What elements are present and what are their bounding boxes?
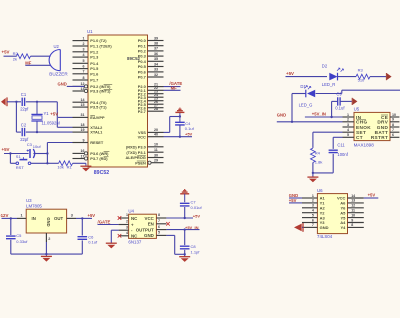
svg-text:1: 1 — [347, 113, 349, 117]
svg-text:GND: GND — [58, 82, 67, 87]
U1 center type text — [127, 56, 140, 61]
wire — [26, 131, 73, 133]
net label +5V_IN U5 — [312, 111, 326, 116]
LED D2 LED_R — [322, 63, 344, 87]
svg-text:RST: RST — [16, 165, 25, 170]
svg-text:LM7805: LM7805 — [26, 203, 42, 208]
svg-text:2: 2 — [48, 237, 50, 241]
no-ERC mark pin1 — [118, 216, 122, 220]
svg-text:0.1uf: 0.1uf — [88, 240, 98, 245]
U1 pin 10 (RXD) P3.0 — [126, 143, 164, 150]
wire — [45, 242, 47, 255]
ground U6 pin7 — [294, 223, 303, 232]
ground below R1 — [80, 163, 91, 171]
power label +12V — [0, 213, 8, 218]
U4 pin 1 NC — [119, 213, 139, 221]
svg-text:GND: GND — [46, 217, 51, 226]
wire — [179, 125, 181, 138]
wire — [81, 218, 83, 235]
connector arrow right row1 — [386, 73, 391, 80]
svg-text:P3.3 (INT1): P3.3 (INT1) — [90, 89, 111, 94]
svg-text:P0.5: P0.5 — [138, 64, 147, 69]
U1 pin 5 P1.4 — [73, 59, 100, 66]
wire — [4, 55, 17, 57]
svg-text:P1.3: P1.3 — [90, 55, 99, 60]
U1 pin 11 (TXD) P3.1 — [126, 148, 163, 155]
U3 designator — [26, 198, 32, 203]
wire VCC — [164, 136, 193, 138]
svg-text:4: 4 — [126, 231, 128, 235]
svg-text:2: 2 — [126, 220, 128, 224]
svg-text:EN: EN — [148, 222, 154, 227]
wire — [76, 217, 92, 219]
svg-text:D1: D1 — [300, 84, 306, 89]
net label GND P3.2 — [58, 82, 67, 87]
svg-text:6: 6 — [158, 225, 160, 229]
wire — [31, 55, 51, 57]
net label MF buzzer — [25, 60, 31, 65]
wire — [302, 226, 303, 228]
U6 pin 2 Y1 — [302, 199, 325, 206]
U1 pin 40 VCC — [138, 133, 164, 140]
svg-text:7: 7 — [158, 219, 160, 223]
U5 designator — [354, 107, 360, 112]
svg-text:35: 35 — [154, 57, 158, 61]
svg-text:+5V: +5V — [50, 111, 58, 116]
U1 pin 4 P1.3 — [73, 53, 100, 60]
U1 pin 16 P3.6 (WR) — [73, 149, 110, 156]
svg-text:8: 8 — [83, 76, 85, 80]
power +5V symbol U1 — [175, 108, 184, 122]
svg-text:(TXD) P3.1: (TXD) P3.1 — [126, 150, 146, 155]
svg-text:2: 2 — [312, 199, 314, 203]
U1 pin 8 P1.7 — [73, 76, 99, 83]
svg-text:10: 10 — [351, 213, 355, 217]
U6 pin 1 A1 — [302, 194, 325, 201]
svg-text:U2: U2 — [54, 44, 60, 49]
svg-text:MF: MF — [171, 85, 178, 90]
U1 pin 31 EA/VPP — [73, 113, 105, 120]
svg-text:1.8k: 1.8k — [315, 160, 323, 165]
wire — [47, 162, 58, 164]
wire — [342, 90, 400, 93]
svg-text:9: 9 — [351, 218, 353, 222]
wire — [9, 154, 11, 164]
svg-text:39: 39 — [154, 36, 158, 40]
svg-text:OUT: OUT — [54, 216, 63, 221]
wire — [313, 132, 343, 148]
svg-text:+5V: +5V — [88, 213, 96, 218]
svg-text:1: 1 — [312, 194, 314, 198]
U1 pin 28 P2.7 — [138, 107, 164, 114]
svg-text:U3: U3 — [26, 198, 32, 203]
wire — [46, 143, 48, 165]
svg-text:5: 5 — [312, 213, 314, 217]
capacitor C1 — [20, 92, 29, 111]
svg-text:100nf: 100nf — [337, 152, 348, 157]
svg-text:16: 16 — [81, 149, 85, 153]
connector arrow right C9 — [352, 98, 357, 105]
no-ERC mark pin7 — [166, 222, 170, 226]
buzzer U2 — [49, 44, 68, 77]
ground U4 pin3 — [106, 243, 117, 248]
wire bottom rail 7805 — [11, 253, 83, 255]
svg-text:C3: C3 — [27, 142, 33, 147]
svg-text:2k: 2k — [13, 56, 17, 61]
power label +5V buzzer — [2, 50, 10, 55]
svg-text:74LS04: 74LS04 — [317, 234, 333, 239]
power label +5V 7805 — [88, 213, 96, 218]
net label /GATE U4 — [98, 219, 111, 224]
wire — [111, 230, 118, 243]
U6 pin 11 A5 — [340, 209, 364, 216]
ground below C8 — [179, 257, 190, 262]
wire — [340, 100, 352, 102]
svg-text:R4: R4 — [315, 150, 321, 155]
resistor R3 — [356, 67, 370, 82]
wire — [33, 153, 47, 155]
net label /GATE P2.0 — [169, 81, 182, 86]
svg-text:18: 18 — [81, 123, 85, 127]
svg-text:IN: IN — [32, 216, 36, 221]
U6 pin 7 GND — [302, 223, 329, 230]
svg-text:GND: GND — [277, 112, 286, 117]
U3 pin 2 — [46, 233, 50, 242]
wire — [10, 218, 12, 235]
svg-text:10k: 10k — [57, 164, 63, 169]
U3 pin 3 — [67, 213, 76, 218]
svg-text:BUZZER: BUZZER — [49, 71, 68, 76]
U1 pin 36 P0.3 — [138, 52, 164, 59]
net label MF P2.1 — [171, 85, 178, 90]
svg-text:P1.0 (T2): P1.0 (T2) — [90, 38, 107, 43]
resistor R4 — [311, 148, 323, 165]
svg-text:R3: R3 — [358, 67, 364, 72]
U5 part MAX1898 — [354, 142, 375, 147]
svg-text:P0.7: P0.7 — [138, 75, 146, 80]
wire — [277, 121, 343, 123]
svg-text:38: 38 — [154, 42, 158, 46]
capacitor C11 100nf — [329, 143, 349, 157]
svg-text:10: 10 — [154, 143, 158, 147]
svg-text:14: 14 — [351, 194, 355, 198]
svg-text:5: 5 — [83, 59, 85, 63]
capacitor C9 0.1uf — [335, 91, 345, 110]
wire — [25, 64, 50, 66]
U6 pin 13 A6 — [340, 199, 364, 206]
U1 pin 15 P3.5 (T1) — [73, 103, 108, 110]
svg-text:R1: R1 — [67, 165, 73, 170]
U1 pin 30 ALE/PROG — [125, 153, 163, 160]
svg-text:33: 33 — [154, 68, 158, 72]
svg-text:7: 7 — [83, 70, 85, 74]
net label GND U5 — [277, 112, 286, 117]
U5 pin 6 RSTRT — [371, 133, 400, 140]
U1 pin 19 XTAL1 — [73, 128, 104, 135]
U1 pin 35 P0.4 — [138, 57, 164, 64]
U1 pin 26 P2.5 — [138, 100, 164, 107]
U3 GND label rotated — [46, 217, 51, 226]
svg-text:PSEN: PSEN — [135, 160, 146, 165]
svg-text:4: 4 — [347, 128, 349, 132]
U1 pin 25 P2.4 — [138, 97, 164, 104]
svg-text:1.1pf: 1.1pf — [191, 249, 201, 254]
wire — [67, 85, 85, 87]
svg-text:15: 15 — [81, 103, 85, 107]
U1 pin 33 P0.6 — [138, 68, 164, 75]
wire — [305, 116, 343, 118]
svg-text:3: 3 — [347, 123, 349, 127]
wire — [57, 102, 72, 128]
wire — [166, 217, 193, 219]
U4 pin 8 VCC — [145, 213, 167, 221]
svg-text:12: 12 — [81, 82, 85, 86]
svg-text:Y1: Y1 — [44, 111, 50, 116]
wire — [184, 250, 186, 257]
U4 pin 4 NC — [119, 231, 139, 239]
svg-text:11: 11 — [351, 209, 355, 213]
power label +5V LEDs — [286, 71, 294, 76]
svg-text:89C52: 89C52 — [94, 170, 109, 176]
svg-text:0.01uf: 0.01uf — [191, 205, 203, 210]
svg-text:3: 3 — [126, 225, 128, 229]
U3 pin 1 — [17, 213, 26, 218]
svg-text:EA/VPP: EA/VPP — [90, 115, 105, 120]
wire — [98, 224, 119, 226]
svg-text:CT: CT — [356, 135, 363, 140]
svg-text:C7: C7 — [191, 199, 197, 204]
U5 pin 7 BATT — [375, 128, 400, 135]
svg-text:0.1uf: 0.1uf — [335, 105, 345, 110]
svg-text:10uf: 10uf — [33, 144, 42, 149]
U3 IN label — [32, 216, 36, 221]
wire — [164, 89, 181, 91]
svg-text:40: 40 — [154, 133, 158, 137]
svg-text:GND: GND — [320, 225, 329, 230]
svg-text:C5: C5 — [16, 233, 22, 238]
U3 part LM7805 — [26, 203, 42, 208]
svg-text:P3.7 (RD): P3.7 (RD) — [90, 156, 108, 161]
svg-text:C2: C2 — [21, 123, 27, 128]
svg-text:3: 3 — [83, 48, 85, 52]
svg-text:36: 36 — [154, 52, 158, 56]
U1 pin 6 P1.5 — [73, 64, 100, 71]
capacitor C7 0.01uf — [180, 199, 203, 209]
svg-text:12: 12 — [351, 204, 355, 208]
wire — [2, 217, 18, 219]
U5 pin 2 CHG — [343, 118, 368, 125]
wire — [291, 94, 293, 122]
U1 pin 34 P0.5 — [138, 62, 164, 69]
svg-text:+5V: +5V — [185, 132, 193, 137]
svg-text:6: 6 — [83, 64, 85, 68]
svg-text:+5V: +5V — [286, 71, 294, 76]
U1 pin 32 P0.7 — [138, 73, 164, 80]
LED D1 LED_G — [299, 84, 316, 107]
svg-text:NC: NC — [131, 234, 138, 239]
U4 part 6N137 — [128, 239, 141, 244]
power label +5V reset — [2, 147, 10, 152]
resistor R1 — [57, 161, 72, 170]
wire — [330, 101, 332, 118]
svg-text:10: 10 — [392, 113, 396, 117]
wire — [286, 76, 328, 78]
svg-text:19: 19 — [81, 128, 85, 132]
IC U1 89C52 body — [88, 35, 148, 167]
svg-text:U6: U6 — [317, 188, 323, 193]
svg-text:17: 17 — [81, 154, 85, 158]
svg-text:U5: U5 — [354, 107, 360, 112]
svg-text:8: 8 — [392, 123, 394, 127]
wire — [47, 142, 72, 144]
wire — [184, 207, 186, 218]
svg-text:MAX1898: MAX1898 — [354, 142, 375, 147]
svg-text:RSTRT: RSTRT — [371, 135, 388, 140]
U6 pin 3 A2 — [302, 204, 325, 211]
wire — [313, 154, 333, 173]
wire — [370, 76, 386, 78]
resistor R2 — [13, 51, 31, 61]
svg-text:3: 3 — [312, 204, 314, 208]
wire — [164, 86, 181, 88]
svg-text:+: + — [131, 222, 134, 227]
svg-text:C1: C1 — [21, 92, 27, 97]
U1 pin 13 P3.3 (INT1) — [73, 87, 113, 94]
svg-text:P2.7: P2.7 — [138, 109, 146, 114]
svg-text:22pf: 22pf — [20, 107, 29, 112]
svg-text:VCC: VCC — [138, 134, 146, 139]
U1 pin 1 P1.0 (T2) — [73, 36, 108, 43]
U6 pin 6 Y3 — [302, 218, 325, 225]
wire — [312, 163, 314, 178]
capacitor C5 0.33uf — [6, 233, 28, 244]
svg-text:XTAL1: XTAL1 — [90, 130, 103, 135]
svg-text:P1.4: P1.4 — [90, 61, 99, 66]
svg-text:13: 13 — [351, 199, 355, 203]
svg-text:RESET: RESET — [90, 140, 104, 145]
svg-text:13: 13 — [81, 87, 85, 91]
svg-text:GND: GND — [144, 233, 154, 238]
svg-text:+5V: +5V — [2, 147, 10, 152]
svg-text:Y4: Y4 — [340, 225, 346, 230]
svg-text:11.0592M: 11.0592M — [42, 121, 61, 126]
U6 part 74LS04 — [317, 234, 333, 239]
svg-text:1: 1 — [21, 213, 23, 217]
svg-text:34: 34 — [154, 62, 158, 66]
U1 pin 21 P2.0 — [138, 82, 164, 89]
U1 part value 89C52 below chip — [94, 170, 109, 176]
svg-text:(RXD) P3.0: (RXD) P3.0 — [126, 144, 146, 149]
svg-text:VCC: VCC — [145, 216, 155, 221]
IC U3 LM7805 body — [26, 209, 66, 233]
svg-text:0.33uf: 0.33uf — [16, 239, 28, 244]
svg-text:U1: U1 — [87, 29, 93, 34]
U1 pin 17 P3.7 (RD) — [73, 154, 109, 161]
wire — [16, 131, 38, 133]
U4 pin 5 GND — [144, 231, 166, 239]
svg-text:+5V: +5V — [2, 50, 10, 55]
wire — [81, 240, 83, 254]
svg-text:29: 29 — [154, 159, 158, 163]
capacitor C2 — [20, 123, 29, 142]
U1 pin 18 XTAL2 — [73, 123, 104, 130]
U1 pin 24 P2.3 — [138, 93, 164, 100]
capacitor C4 0.1uf — [175, 121, 194, 131]
U5 pin 5 CT — [343, 133, 363, 140]
U3 OUT label — [54, 216, 63, 221]
U4 designator — [128, 208, 134, 213]
IC U6 74LS04 body — [317, 194, 347, 234]
power +5V symbol above C7 — [180, 190, 189, 203]
wire — [316, 93, 342, 95]
U4 pin 7 EN — [148, 219, 167, 227]
ground left of crystal — [1, 97, 7, 106]
svg-text:R2: R2 — [13, 51, 19, 56]
svg-text:28: 28 — [154, 107, 158, 111]
svg-text:NC: NC — [131, 216, 138, 221]
svg-text:37: 37 — [154, 47, 158, 51]
svg-text:9: 9 — [83, 138, 85, 142]
svg-text:8: 8 — [351, 223, 353, 227]
svg-text:U4: U4 — [128, 208, 134, 213]
svg-text:32: 32 — [154, 73, 158, 77]
svg-text:D2: D2 — [322, 63, 328, 68]
svg-text:+12V: +12V — [0, 213, 8, 218]
wire — [289, 197, 302, 199]
U4 pin 2 + — [119, 220, 134, 228]
wire — [333, 137, 342, 149]
ground U3 — [41, 254, 52, 262]
U6 pin 9 A4 — [340, 218, 364, 225]
U1 pin 9 RESET — [73, 138, 104, 145]
U1 pin 27 P2.6 — [138, 104, 164, 111]
svg-text:P1.6: P1.6 — [90, 71, 99, 76]
net label +5V U6 pin2 — [289, 198, 297, 203]
power label +5V U6 VCC — [368, 192, 376, 197]
U5 pin 10 CE — [381, 113, 399, 120]
wire — [4, 152, 29, 154]
U5 pin 3 ENOK — [343, 123, 372, 130]
svg-text:P1.1 (T2EX): P1.1 (T2EX) — [90, 44, 112, 49]
U1 pin 38 P0.1 — [138, 42, 164, 49]
svg-text:31: 31 — [81, 113, 85, 117]
power label +5V EA — [50, 111, 58, 116]
wire — [73, 162, 86, 164]
svg-text:OUTPUT: OUTPUT — [136, 227, 154, 232]
wire — [338, 76, 357, 78]
wire — [166, 228, 199, 230]
U4 pin 3 - — [119, 225, 133, 233]
U1 pin 22 P2.1 — [138, 86, 164, 93]
svg-text:6: 6 — [312, 218, 314, 222]
capacitor C3 10uf — [27, 142, 42, 158]
svg-text:2: 2 — [347, 118, 349, 122]
net label GND U6 pin1 — [289, 193, 298, 198]
wire — [7, 101, 21, 103]
svg-text:S1: S1 — [16, 154, 22, 159]
wire — [184, 230, 186, 246]
wire — [26, 101, 58, 103]
svg-text:11: 11 — [154, 148, 158, 152]
wire — [10, 240, 12, 254]
svg-text:510: 510 — [358, 77, 365, 82]
svg-text:C9: C9 — [336, 91, 342, 96]
wire — [292, 93, 306, 95]
power label +5V U4 — [193, 214, 201, 219]
svg-text:9: 9 — [392, 118, 394, 122]
ground below R4 — [307, 177, 318, 182]
svg-text:+5V: +5V — [193, 214, 201, 219]
